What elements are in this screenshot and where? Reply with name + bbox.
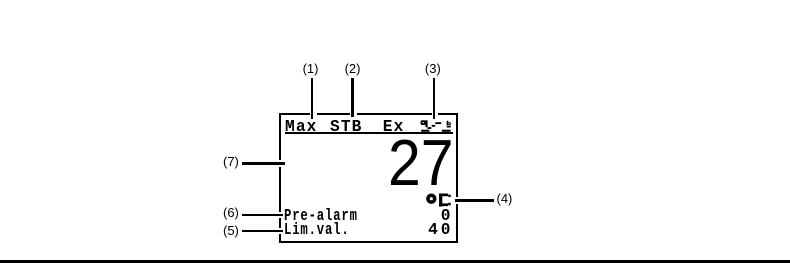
leader line (7): [242, 160, 286, 167]
callout label (7): [223, 155, 239, 168]
leader line (3): [432, 78, 439, 119]
callout label (6): [223, 206, 239, 219]
callout label (3): [425, 62, 441, 75]
callout label (2): [345, 62, 361, 75]
callout label (1): [303, 62, 319, 75]
display frame: [279, 113, 458, 243]
label Lim.val.: [284, 222, 350, 238]
LCD status icon (pixel relay/contact symbol): [419, 120, 453, 133]
label Pre-alarm: [284, 208, 358, 224]
value 40: [0, 222, 453, 238]
LCD status row underline: [285, 132, 453, 134]
LCD status row: Ex: [383, 119, 405, 135]
leader line (1): [310, 78, 317, 119]
leader line (2): [350, 78, 357, 118]
callout label (5): [223, 224, 239, 237]
leader line (6): [242, 212, 283, 219]
LCD status row: Max: [285, 119, 317, 135]
unit °C (pixel symbol): [426, 193, 452, 207]
bottom rule: [0, 260, 790, 263]
callout label (4): [497, 192, 513, 205]
letter C (blocky LCD): [439, 193, 451, 206]
big reading 27: [388, 131, 454, 196]
leader line (4): [455, 197, 494, 204]
leader line (5): [242, 228, 283, 235]
LCD status row: STB: [330, 119, 362, 135]
degree ring: [427, 195, 434, 202]
value 0: [0, 208, 453, 224]
